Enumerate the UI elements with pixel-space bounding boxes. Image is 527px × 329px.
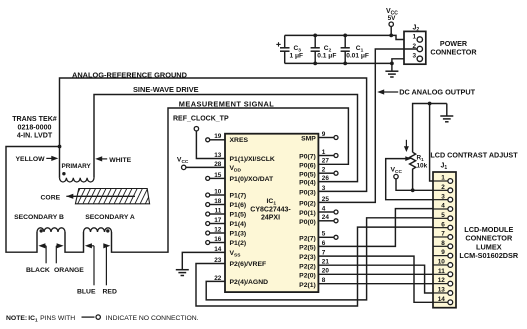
IC pin 22 number: [214, 275, 222, 282]
wire P2(3) pin 7 to J1 pin 14: [318, 256, 433, 302]
svg-text:24: 24: [322, 214, 330, 221]
svg-text:3: 3: [441, 193, 445, 200]
note text: [6, 315, 199, 324]
wire junction down to J1 pin 1: [430, 104, 433, 182]
wire MEASUREMENT SIGNAL net: LVDT secondary-A right terminal up, across, down to IC pin 27 P0(6): [112, 108, 349, 252]
svg-text:6: 6: [441, 221, 445, 228]
VCC terminal circle: [389, 22, 393, 26]
IC label P0(6): [299, 162, 316, 169]
wire P2(2) pin 21 to J1 pin 13: [318, 265, 433, 293]
label ANALOG-REFERENCE GROUND: [72, 70, 188, 79]
svg-text:4-IN. LVDT: 4-IN. LVDT: [17, 132, 53, 140]
wire P2(5) pin 6 to J1 pin 4: [318, 209, 433, 247]
IC label P1(1)/XI/SCLK: [230, 156, 275, 163]
IC label VSS: [230, 250, 242, 259]
svg-text:11: 11: [215, 207, 222, 214]
label BLACK: [26, 267, 50, 274]
IC label P0(5): [299, 171, 316, 178]
wire capacitor top bus: [285, 34, 392, 36]
resistor R1 10k (potentiometer): [404, 140, 416, 191]
svg-text:0.01 μF: 0.01 μF: [346, 53, 369, 60]
wire analog-ground loop: primary-left junction to secondary-B left terminal: [6, 147, 60, 253]
label MEASUREMENT SIGNAL: [179, 100, 274, 109]
J1 pin 2: [433, 184, 453, 193]
svg-text:CY8C27443-: CY8C27443-: [250, 207, 291, 214]
label C2 0.1 uF: [317, 45, 336, 60]
label IC1 CY8C27443-24PXI: [250, 198, 291, 222]
wire R1 top to ground rail: [413, 104, 447, 153]
svg-text:17: 17: [214, 217, 222, 224]
label J1: [441, 163, 448, 172]
J1 pin 3: [433, 193, 453, 202]
svg-text:NOTE:: NOTE:: [6, 315, 27, 322]
svg-text:P0(3): P0(3): [299, 190, 316, 197]
svg-text:2: 2: [441, 184, 445, 191]
callout RED arrow to secondary-A right terminal: [103, 243, 110, 285]
wire P2(4)/AGND pin 22 to J1 pin 5: [206, 218, 433, 300]
svg-text:SECONDARY B: SECONDARY B: [14, 214, 64, 221]
svg-text:P1(7): P1(7): [230, 192, 247, 199]
svg-text:P0(2): P0(2): [299, 201, 316, 208]
svg-text:P1(3): P1(3): [230, 230, 247, 237]
svg-text:P0(6): P0(6): [299, 162, 316, 169]
IC pin 27 number: [322, 158, 330, 165]
svg-text:DC ANALOG OUTPUT: DC ANALOG OUTPUT: [399, 87, 475, 96]
junction bottom bus / ground: [390, 62, 394, 66]
IC label P2(1): [299, 282, 316, 289]
svg-text:5: 5: [441, 212, 445, 219]
callout ORANGE arrow to secondary-B right terminal: [56, 243, 63, 263]
svg-text:XRES: XRES: [230, 137, 249, 144]
wire DC ANALOG OUTPUT: J2 pin 2 to IC pin 25 P0(2): [318, 49, 417, 202]
svg-text:PRIMARY: PRIMARY: [62, 163, 92, 170]
label YELLOW: [16, 156, 46, 163]
svg-text:24PXI: 24PXI: [261, 215, 280, 222]
svg-text:4: 4: [441, 203, 445, 210]
IC label P0(3): [299, 190, 316, 197]
IC pin 11 P1(5) (NC): [206, 207, 225, 216]
IC pin 12 P1(3) (NC): [206, 226, 225, 235]
IC label P2(5): [299, 245, 316, 252]
IC pin 14 number: [214, 246, 222, 253]
svg-text:CORE: CORE: [41, 195, 61, 202]
callout BLACK arrow to secondary-B left terminal: [38, 243, 46, 263]
svg-text:P1(5): P1(5): [230, 211, 247, 218]
VCC terminal circle at R1: [394, 174, 398, 178]
J1 pin 6: [433, 221, 453, 230]
IC label P1(2): [230, 240, 247, 247]
IC label P2(6)/VREF: [230, 261, 267, 268]
wire VCC stub to top bus: [390, 26, 392, 35]
IC pin 10 P1(7) (NC): [206, 188, 225, 197]
junction VCC / top bus: [389, 34, 393, 38]
svg-text:ANALOG-REFERENCE GROUND: ANALOG-REFERENCE GROUND: [72, 70, 188, 79]
label C1 0.01 uF: [346, 45, 369, 60]
svg-text:4: 4: [322, 205, 326, 212]
svg-text:1 μF: 1 μF: [290, 53, 304, 60]
svg-text:0.1 μF: 0.1 μF: [317, 53, 336, 60]
svg-text:9: 9: [441, 249, 445, 256]
svg-text:11: 11: [438, 268, 445, 275]
J1 pin 9: [433, 249, 453, 258]
IC label SMP: [301, 136, 316, 143]
J2 pin 3: [412, 53, 422, 62]
IC label P2(4)/AGND: [230, 279, 269, 286]
svg-text:P2(0): P2(0): [299, 272, 316, 279]
svg-text:WHITE: WHITE: [109, 157, 131, 164]
label SINE-WAVE DRIVE: [133, 85, 199, 94]
svg-text:3: 3: [322, 185, 326, 192]
connector J2 box: [404, 31, 426, 64]
wire capacitor bottom bus: [285, 62, 392, 64]
IC pin 23 number: [214, 257, 222, 264]
wire P2(0) pin 20 to J1 pin 11: [318, 273, 433, 275]
wiper of R1 to J1 pin 3: [386, 156, 433, 200]
IC pin 17 P1(4) (NC): [206, 217, 225, 226]
svg-text:P0(1): P0(1): [299, 210, 316, 217]
svg-text:P0(5): P0(5): [299, 171, 316, 178]
svg-text:MEASUREMENT SIGNAL: MEASUREMENT SIGNAL: [179, 100, 274, 109]
svg-text:28: 28: [214, 161, 222, 168]
label ORANGE: [54, 267, 84, 274]
IC label P1(7): [230, 192, 247, 199]
primary polarity dot: [62, 172, 65, 175]
transformer secondary A winding: [84, 228, 112, 232]
transformer primary winding: [60, 178, 95, 182]
secondary A polarity dot: [106, 229, 109, 232]
wire top bus to J2 pin 1: [391, 35, 417, 39]
J1 pin 5: [433, 212, 453, 221]
IC label P0(4): [299, 180, 316, 187]
svg-text:18: 18: [214, 198, 222, 205]
IC label P2(2): [299, 263, 316, 270]
IC pin 20 number: [322, 268, 330, 275]
label RED: [103, 288, 117, 295]
label WHITE: [109, 157, 131, 164]
svg-text:16: 16: [214, 236, 222, 243]
capacitor C2 (0.1 uF): [311, 34, 320, 66]
svg-text:P1(2): P1(2): [230, 240, 247, 247]
IC pin 7 number: [322, 250, 326, 257]
svg-text:LCD CONTRAST ADJUST: LCD CONTRAST ADJUST: [430, 150, 518, 159]
svg-text:15: 15: [214, 172, 222, 179]
svg-text:P2(4)/AGND: P2(4)/AGND: [230, 279, 269, 286]
IC pin 25 number: [322, 196, 330, 203]
svg-text:9: 9: [322, 131, 326, 138]
svg-text:P0(7): P0(7): [299, 154, 316, 161]
label VCC 5V supply: [386, 8, 398, 22]
IC label P1(5): [230, 211, 247, 218]
svg-text:1: 1: [322, 149, 326, 156]
IC label P1(3): [230, 230, 247, 237]
IC pin 16 P1(2) (NC): [206, 236, 225, 245]
svg-text:SINE-WAVE DRIVE: SINE-WAVE DRIVE: [133, 85, 199, 94]
wire VCC to J1 pin 2: [396, 179, 433, 191]
IC label P0(0): [299, 219, 316, 226]
svg-text:BLACK: BLACK: [26, 267, 50, 274]
wire P2(6)/VREF pin 23 to J1 pin 6: [196, 227, 433, 306]
svg-text:REF_CLOCK_TP: REF_CLOCK_TP: [173, 115, 229, 122]
IC label XRES: [230, 137, 249, 144]
svg-text:26: 26: [322, 175, 330, 182]
svg-text:5: 5: [322, 231, 326, 238]
IC pin 2 P0(5) (NC): [318, 167, 338, 176]
callout arrow YELLOW to primary-left wire: [46, 156, 58, 161]
J2 pin 2: [412, 43, 422, 52]
IC label P0(1): [299, 210, 316, 217]
label J2: [413, 25, 420, 34]
svg-text:3: 3: [412, 53, 416, 60]
svg-text:YELLOW: YELLOW: [16, 156, 46, 163]
label BLUE: [77, 288, 96, 295]
svg-text:P2(7): P2(7): [299, 235, 316, 242]
label LCD CONTRAST ADJUST: [430, 150, 518, 159]
svg-text:TRANS TEK#: TRANS TEK#: [12, 115, 57, 123]
arrow DC ANALOG OUTPUT: [377, 89, 398, 94]
svg-text:P0(0): P0(0): [299, 219, 316, 226]
J1 pin 12: [433, 277, 453, 286]
svg-text:27: 27: [322, 158, 330, 165]
svg-text:5V: 5V: [388, 15, 397, 22]
svg-text:POWER: POWER: [440, 39, 468, 48]
core arrow: [66, 194, 135, 199]
capacitor C1 (0.01 uF): [341, 34, 350, 66]
IC pin 15 P1(0) (NC): [206, 172, 225, 181]
IC pin 4 P0(1) (NC): [318, 205, 338, 214]
J1 pin 8: [433, 240, 453, 249]
label POWER CONNECTOR: [430, 39, 477, 57]
svg-text:LCM-S01602DSR: LCM-S01602DSR: [459, 251, 519, 260]
label PRIMARY: [62, 163, 92, 170]
svg-text:2: 2: [322, 167, 326, 174]
capacitor C3 (1 uF, polarized): [276, 35, 289, 63]
J2 pin 1: [412, 33, 422, 42]
wire P2(1) pin 8 to J1 pin 12: [318, 283, 433, 285]
ground at R1 rail: [440, 104, 453, 122]
IC pin 18 P1(6) (NC): [206, 198, 225, 207]
label SECONDARY A: [85, 214, 135, 221]
junction R1 rail / J1 pin 1 drop: [428, 102, 432, 106]
svg-text:CONNECTOR: CONNECTOR: [430, 48, 477, 57]
callout BLUE arrow to secondary-A left terminal: [85, 243, 94, 285]
svg-text:P0(4): P0(4): [299, 180, 316, 187]
wire primary left terminal: [59, 147, 61, 178]
svg-text:12: 12: [214, 226, 222, 233]
IC label P2(3): [299, 254, 316, 261]
IC label P0(7): [299, 154, 316, 161]
IC pin 24 P0(0) (NC): [318, 214, 338, 223]
IC pin 1 P0(7) (NC): [318, 149, 338, 158]
svg-text:P1(6): P1(6): [230, 202, 247, 209]
connector J1 box: [433, 172, 456, 308]
wire secondary B right to secondary A left: [65, 232, 84, 252]
ground below J2: [385, 63, 398, 77]
J1 pin 1: [433, 175, 453, 184]
IC pin 28 number: [214, 161, 222, 168]
junction primary-left / ground loop: [58, 145, 62, 149]
label VCC at R1: [391, 166, 403, 175]
VCC terminal at IC VDD: [177, 156, 225, 169]
svg-text:P2(6)/VREF: P2(6)/VREF: [230, 261, 267, 268]
svg-text:7: 7: [441, 231, 445, 238]
J1 pin 13: [433, 287, 453, 296]
svg-text:LCD-MODULE: LCD-MODULE: [464, 225, 513, 234]
svg-text:CONNECTOR: CONNECTOR: [465, 234, 513, 243]
svg-text:P2(1): P2(1): [299, 282, 316, 289]
svg-text:LUMEX: LUMEX: [476, 242, 502, 251]
secondary B polarity dot: [40, 229, 43, 232]
svg-text:P2(2): P2(2): [299, 263, 316, 270]
junction R1 bottom / VCC / J1 pin 2: [411, 188, 415, 192]
wire bottom bus to J2 pin 3: [392, 59, 417, 64]
svg-text:SMP: SMP: [301, 136, 316, 143]
IC pin 13 number: [214, 152, 222, 159]
svg-text:P2(5): P2(5): [299, 245, 316, 252]
IC label P0(2): [299, 201, 316, 208]
IC pin 6 number: [322, 240, 326, 247]
J1 pin 10: [433, 259, 453, 268]
label LCD-MODULE CONNECTOR LUMEX LCM-S01602DSR: [459, 225, 519, 260]
wire SINE-WAVE DRIVE net: LVDT primary-right up, across, down to IC pin 26 P0(4): [94, 95, 358, 182]
IC pin 21 number: [322, 259, 330, 266]
label C3 1 uF: [290, 45, 304, 60]
IC pin 8 number: [322, 277, 326, 284]
ground at VSS: [176, 270, 189, 276]
transformer secondary B winding: [37, 228, 65, 232]
svg-text:P1(0)/XO/DAT: P1(0)/XO/DAT: [230, 176, 275, 183]
label SECONDARY B: [14, 214, 64, 221]
svg-text:SECONDARY A: SECONDARY A: [85, 214, 135, 221]
svg-text:13: 13: [214, 152, 222, 159]
J1 pin 14: [433, 296, 453, 305]
label DC ANALOG OUTPUT: [399, 87, 475, 96]
svg-text:P2(3): P2(3): [299, 254, 316, 261]
IC label P1(0)/XO/DAT: [230, 176, 275, 183]
J1 pin 11: [433, 268, 453, 277]
svg-text:10: 10: [214, 188, 222, 195]
svg-text:ORANGE: ORANGE: [54, 267, 84, 274]
label CORE: [41, 195, 61, 202]
svg-text:19: 19: [214, 133, 222, 140]
IC pin 26 number: [322, 175, 330, 182]
svg-text:13: 13: [438, 287, 446, 294]
IC label P1(6): [230, 202, 247, 209]
svg-text:12: 12: [438, 277, 446, 284]
svg-text:25: 25: [322, 196, 330, 203]
IC pin 9 SMP (NC): [318, 131, 338, 140]
J1 pin 4: [433, 203, 453, 212]
IC pin 19 XRES (NC): [206, 133, 225, 142]
svg-text:INDICATE NO CONNECTION.: INDICATE NO CONNECTION.: [106, 315, 199, 322]
svg-text:10: 10: [438, 259, 446, 266]
svg-text:1: 1: [412, 33, 416, 40]
svg-text:RED: RED: [103, 288, 117, 295]
J1 pin 7: [433, 231, 453, 240]
IC pin 5 P2(7) (NC): [318, 231, 338, 240]
core hatched bar: [66, 186, 159, 207]
svg-text:PINS WITH: PINS WITH: [40, 315, 75, 322]
callout arrow WHITE to primary-right wire: [95, 156, 107, 161]
svg-text:10k: 10k: [417, 162, 428, 169]
wire ANALOG-REFERENCE GROUND net: from LVDT primary-left up, across, down to IC pin 3 P0(3): [60, 78, 367, 191]
svg-text:P1(4): P1(4): [230, 221, 247, 228]
svg-text:14: 14: [438, 296, 446, 303]
svg-text:BLUE: BLUE: [77, 288, 96, 295]
svg-text:0218-0000: 0218-0000: [18, 123, 52, 131]
label TRANS TEK# 0218-0000 4-IN. LVDT: [12, 115, 57, 140]
IC label P2(0): [299, 272, 316, 279]
IC U1 CY8C27443-24PXI body: [225, 134, 318, 292]
svg-text:8: 8: [441, 240, 445, 247]
svg-text:P1(1)/XI/SCLK: P1(1)/XI/SCLK: [230, 156, 275, 163]
label R1 10k: [417, 155, 428, 170]
test point REF_CLOCK_TP circle: [194, 127, 198, 131]
wire VSS pin 14 to ground: [182, 252, 225, 269]
svg-text:1: 1: [441, 175, 445, 182]
IC label P2(7): [299, 235, 316, 242]
wire REF_CLOCK_TP to IC pin 13 P1(1): [196, 131, 225, 159]
IC pin 3 number: [322, 185, 326, 192]
label REF_CLOCK_TP: [173, 115, 229, 122]
IC label P1(4): [230, 221, 247, 228]
IC label VDD: [230, 165, 242, 174]
